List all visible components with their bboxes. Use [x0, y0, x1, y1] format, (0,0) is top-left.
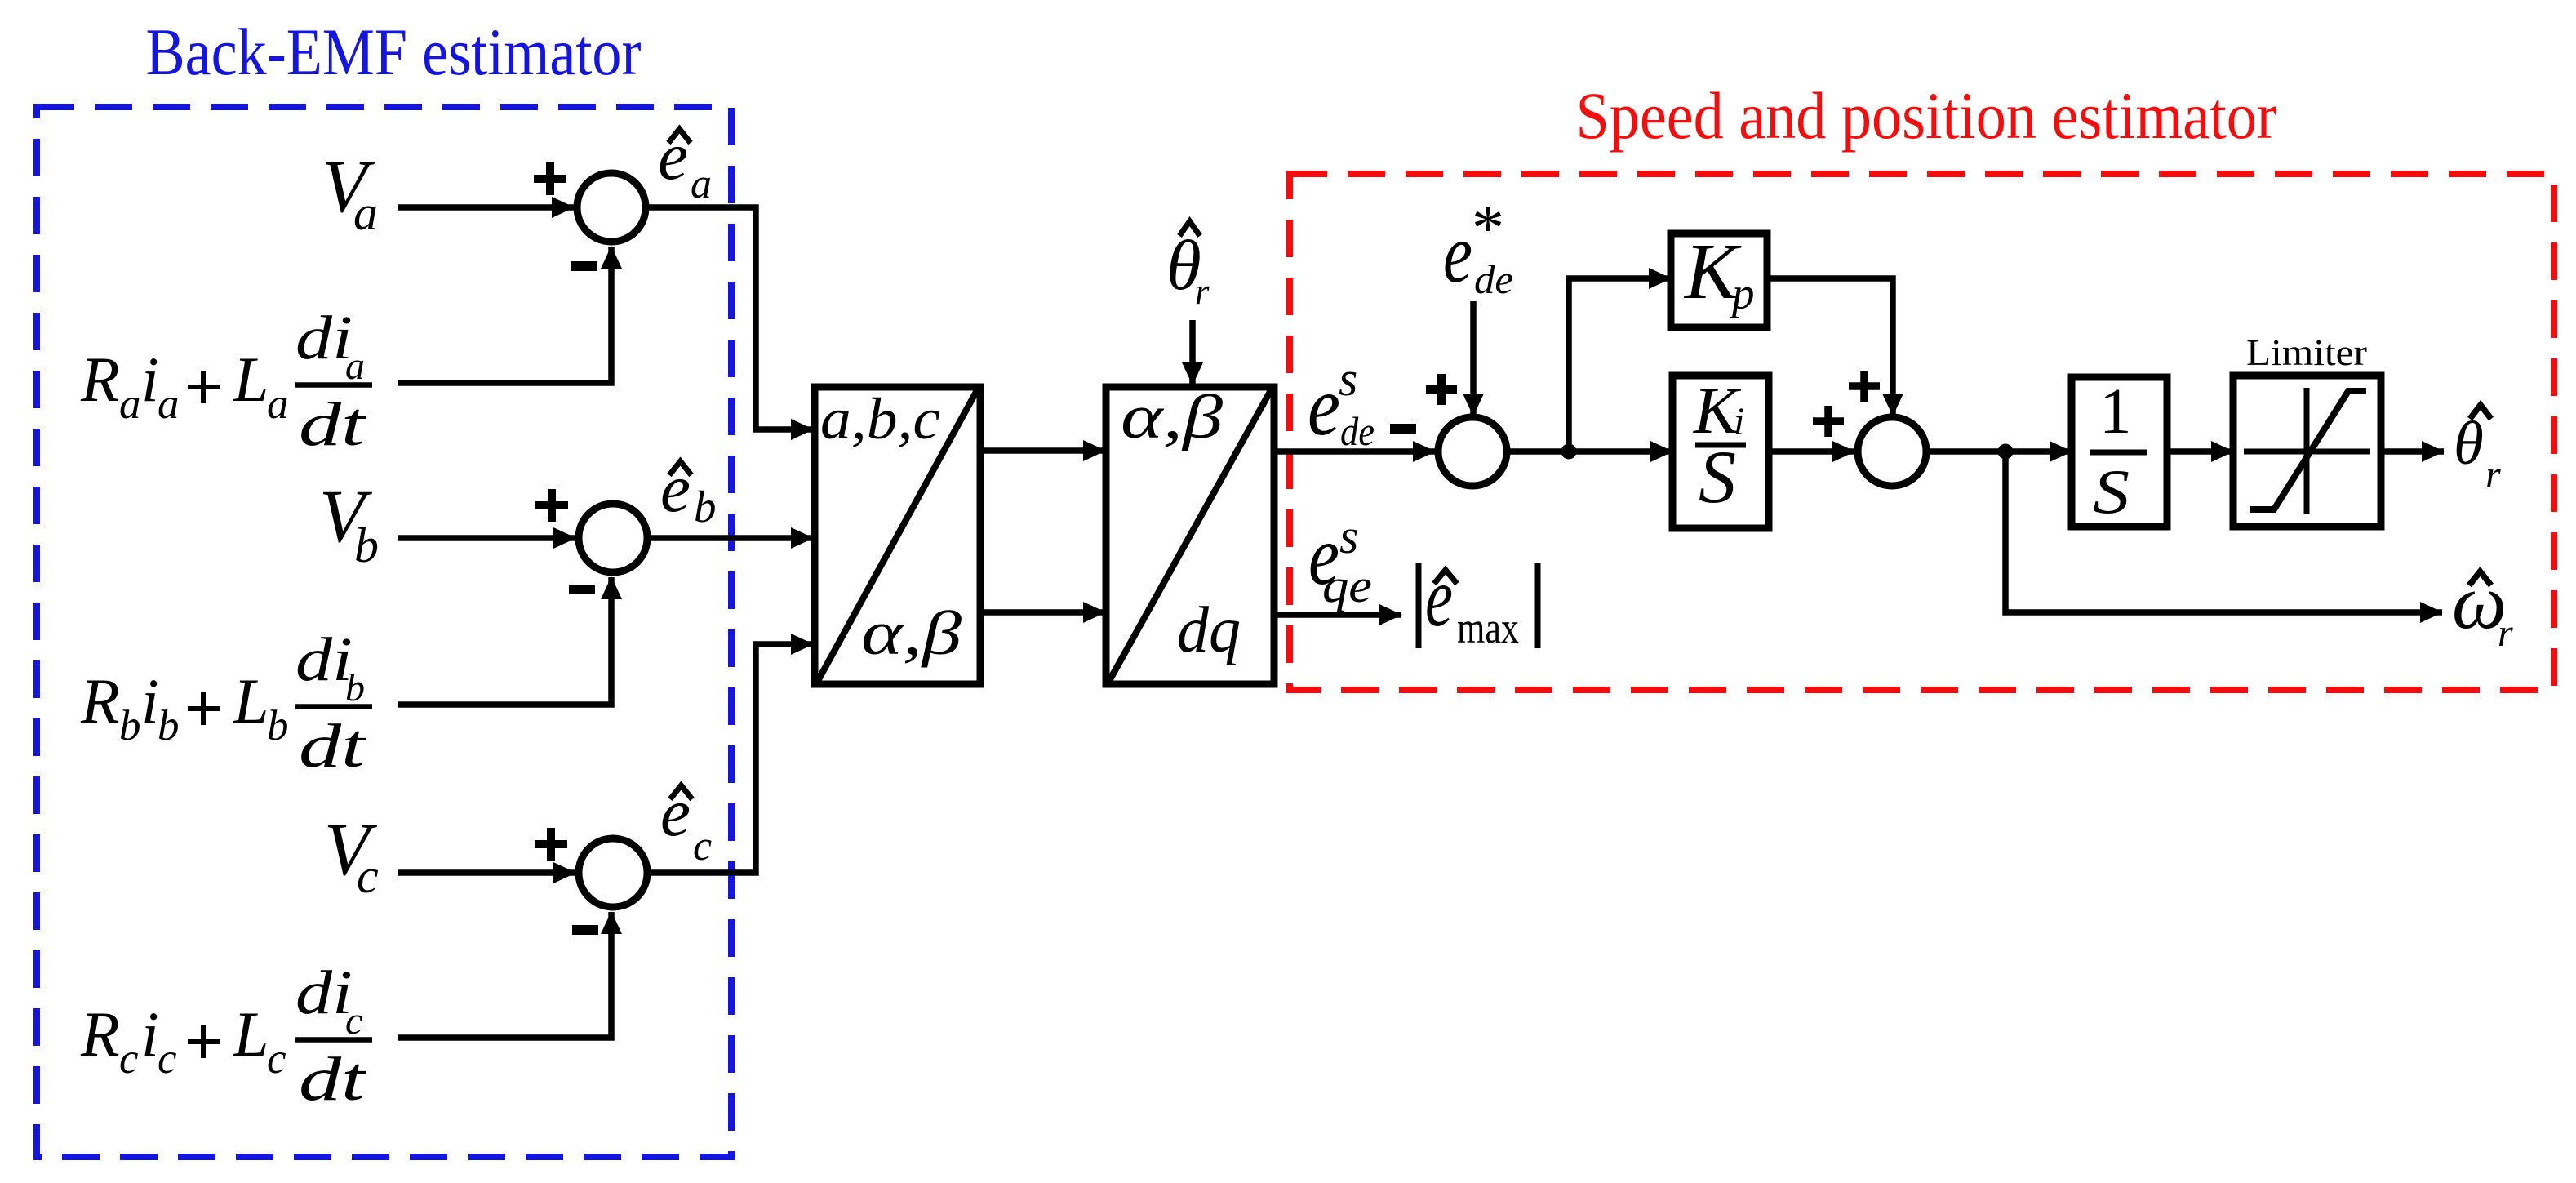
- svg-text:a: a: [345, 345, 365, 388]
- block Ki over S: [1672, 373, 1769, 528]
- svg-text:r: r: [2485, 453, 2501, 496]
- svg-text:di: di: [295, 304, 353, 372]
- svg-text:a: a: [353, 186, 378, 240]
- svg-text:c: c: [158, 1035, 177, 1083]
- svg-text:e: e: [660, 775, 691, 851]
- svg-text:L: L: [233, 998, 269, 1070]
- node ea_hat label: [658, 118, 712, 207]
- svg-text:e: e: [1308, 359, 1340, 453]
- wire Rb*ib feedback to S2: [398, 577, 611, 705]
- summer S1: [577, 173, 646, 242]
- wire Vb to summer S2: [398, 535, 575, 541]
- svg-text:de: de: [1340, 408, 1375, 454]
- minus sign at S4 left input: [1390, 424, 1416, 434]
- wire J1 up and to Kp: [1569, 278, 1671, 451]
- minus sign at S1: [571, 261, 597, 271]
- block 1/S integrator: [2072, 376, 2167, 527]
- svg-text:Limiter: Limiter: [2246, 331, 2367, 373]
- speed and position estimator box (red dashed): [1290, 174, 2554, 690]
- svg-text:*: *: [1472, 193, 1504, 265]
- svg-text:di: di: [295, 625, 353, 694]
- label Rc ic + Lc dic/dt: [80, 958, 372, 1114]
- summer S5: [1858, 417, 1926, 486]
- svg-text:i: i: [141, 344, 159, 415]
- svg-text:b: b: [267, 702, 289, 749]
- svg-text:b: b: [345, 666, 365, 709]
- summer S3: [579, 838, 647, 907]
- wire Ra*ia feedback to S1: [398, 247, 611, 383]
- svg-text:S: S: [1699, 435, 1736, 518]
- svg-text:s: s: [1339, 352, 1357, 406]
- summer S4: [1438, 417, 1507, 486]
- svg-text:c: c: [357, 849, 379, 903]
- svg-text:r: r: [1195, 271, 1210, 312]
- svg-text:a,b,c: a,b,c: [820, 386, 940, 451]
- wire Ki output to S5: [1769, 448, 1854, 455]
- svg-text:de: de: [1474, 256, 1513, 302]
- svg-text:i: i: [141, 998, 159, 1070]
- svg-text:θ: θ: [2454, 410, 2484, 478]
- block U2 alpha-beta to dq transform: [1106, 383, 1274, 684]
- svg-text:a: a: [158, 380, 180, 428]
- wire Vc to summer S3: [398, 869, 575, 876]
- svg-text:b: b: [158, 702, 180, 749]
- wire theta_r_hat into U2: [1189, 320, 1196, 385]
- svg-text:r: r: [2498, 612, 2513, 655]
- svg-text:c: c: [693, 823, 712, 869]
- svg-text:dt: dt: [299, 712, 367, 781]
- svg-text:Speed and position estimator: Speed and position estimator: [1576, 78, 2277, 153]
- svg-text:c: c: [119, 1035, 139, 1083]
- node es_de label: [1308, 352, 1375, 454]
- wire Kp output to S5 top: [1767, 278, 1893, 416]
- svg-text:1: 1: [2099, 376, 2132, 447]
- svg-text:a: a: [691, 161, 712, 207]
- junction J2: [1998, 444, 2014, 460]
- svg-text:α,β: α,β: [861, 599, 962, 668]
- svg-text:R: R: [80, 665, 120, 736]
- svg-text:i: i: [141, 665, 159, 736]
- wire S3 output to abc block input 3: [647, 644, 813, 873]
- svg-text:e: e: [660, 451, 691, 527]
- wire U1 to U2 upper: [981, 447, 1105, 454]
- svg-text:a: a: [119, 380, 141, 428]
- node Vb label: [319, 474, 379, 572]
- svg-text:S: S: [2093, 456, 2130, 527]
- svg-text:c: c: [267, 1035, 286, 1083]
- plus sign at S5 top input: [1849, 371, 1880, 402]
- svg-text:a: a: [267, 380, 289, 428]
- back-emf estimator box (blue dashed): [37, 107, 731, 1157]
- wire Rc*ic feedback to S3: [398, 912, 611, 1038]
- svg-text:max: max: [1457, 603, 1519, 652]
- plus sign at S1: [534, 162, 566, 195]
- svg-text:qe: qe: [1322, 559, 1372, 612]
- node omega_r_hat output label: [2452, 558, 2513, 655]
- svg-text:p: p: [1729, 269, 1755, 318]
- svg-text:dq: dq: [1177, 594, 1241, 666]
- svg-text:dt: dt: [299, 1045, 367, 1114]
- svg-text:α,β: α,β: [1121, 383, 1223, 451]
- plus sign at S3: [535, 828, 567, 861]
- svg-text:c: c: [345, 999, 362, 1043]
- svg-text:R: R: [80, 998, 120, 1070]
- svg-text:dt: dt: [299, 390, 367, 459]
- node eb_hat label: [660, 451, 717, 531]
- svg-text:e: e: [1425, 550, 1453, 644]
- node Vc label: [324, 807, 379, 903]
- node theta_r_hat input label: [1166, 221, 1210, 312]
- label Rb ib + Lb dib/dt: [80, 625, 372, 781]
- svg-text:di: di: [295, 958, 353, 1027]
- wire 1/S to limiter: [2167, 448, 2233, 455]
- block U1 abc to alpha-beta transform: [815, 386, 980, 684]
- limiter block: [2233, 331, 2381, 527]
- plus sign at S5 left input: [1813, 406, 1844, 437]
- wire S5 output to 1/S block with junction J2: [1926, 448, 2072, 455]
- svg-text:L: L: [233, 344, 269, 415]
- wire S2 output to abc block input 2: [647, 535, 813, 541]
- plus sign at S4 top input: [1426, 374, 1457, 405]
- wire S1 output to abc block input 1: [646, 207, 813, 429]
- wire e*_de into S4: [1470, 301, 1477, 416]
- wire es_de to summer S4: [1275, 448, 1435, 455]
- node e*_de reference label: [1443, 193, 1513, 302]
- svg-text:e: e: [1443, 207, 1472, 300]
- wire limiter to theta_r_hat output: [2381, 448, 2444, 455]
- node theta_r_hat output label: [2454, 405, 2501, 496]
- minus sign at S3: [572, 925, 598, 935]
- node emax_hat label with bars: [1419, 550, 1538, 652]
- node ec_hat label: [660, 775, 712, 869]
- wire U1 to U2 lower: [981, 609, 1105, 616]
- label Ra ia + La dia/dt: [80, 304, 372, 459]
- wire es_qe to emax: [1276, 612, 1401, 618]
- plus sign at S2: [535, 489, 568, 522]
- wire S4 output to Ki block with junction: [1507, 448, 1672, 455]
- summer S2: [579, 504, 647, 572]
- svg-text:R: R: [80, 344, 120, 415]
- wire Va to summer S1: [398, 204, 574, 211]
- svg-text:L: L: [233, 665, 269, 736]
- svg-text:b: b: [119, 702, 141, 749]
- minus sign at S2: [569, 585, 595, 594]
- block Kp: [1671, 228, 1767, 327]
- svg-text:b: b: [694, 482, 717, 531]
- node es_qe label: [1308, 509, 1372, 612]
- svg-text:b: b: [354, 518, 379, 572]
- svg-text:s: s: [1339, 509, 1358, 563]
- svg-text:Back-EMF estimator: Back-EMF estimator: [146, 15, 642, 89]
- junction J1: [1561, 444, 1577, 460]
- node Va label: [322, 145, 378, 240]
- wire J2 down to omega_r_hat output: [2005, 451, 2442, 612]
